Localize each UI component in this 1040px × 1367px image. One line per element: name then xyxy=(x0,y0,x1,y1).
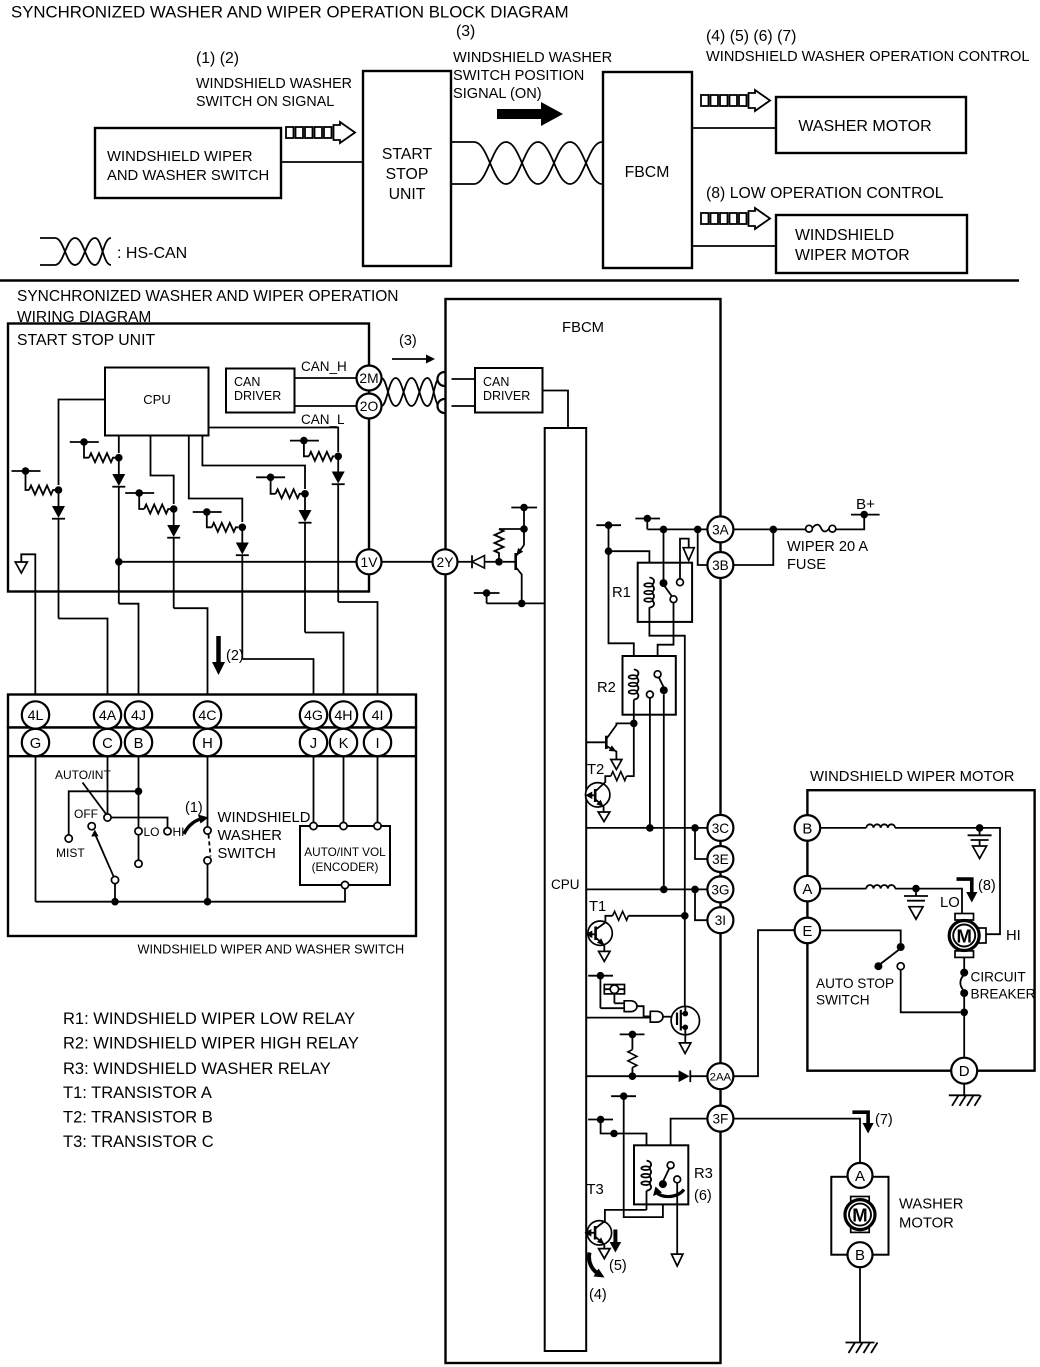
svg-text:AUTO/INT: AUTO/INT xyxy=(55,768,111,782)
svg-text:D: D xyxy=(959,1063,970,1080)
washer switch arm (dashed) xyxy=(209,835,211,857)
wiper switch arm xyxy=(91,830,119,906)
stub 2Y supply xyxy=(511,504,537,545)
svg-text:1V: 1V xyxy=(361,555,379,570)
wire H to washer contact xyxy=(207,756,209,827)
wire R2 pivot to 3G xyxy=(663,694,665,889)
pin 4A xyxy=(94,701,121,728)
cell 5: stub xyxy=(256,474,309,499)
svg-text:LO: LO xyxy=(144,825,160,839)
svg-text:WASHER: WASHER xyxy=(899,1197,963,1213)
svg-text:STOP: STOP xyxy=(386,166,429,183)
connector 1V xyxy=(357,549,382,574)
svg-text:WINDSHIELD WIPER: WINDSHIELD WIPER xyxy=(107,149,253,165)
cell 6: stub xyxy=(290,437,342,461)
svg-text:DRIVER: DRIVER xyxy=(483,389,530,403)
wire 3F to washer motor xyxy=(733,1119,860,1163)
curved arrow (4) xyxy=(589,1253,604,1278)
curved arrow (1) xyxy=(184,819,203,835)
cell 3: stub xyxy=(125,489,177,513)
svg-text:4A: 4A xyxy=(99,708,117,724)
wire CPU to cell4 xyxy=(189,436,243,523)
svg-text:WIPER 20 A: WIPER 20 A xyxy=(787,539,868,555)
transistor T1 (circled) xyxy=(585,921,612,961)
svg-text:3A: 3A xyxy=(712,522,730,537)
contact LO xyxy=(135,828,142,835)
svg-text:BREAKER: BREAKER xyxy=(971,987,1036,1002)
svg-text:(4) (5) (6) (7): (4) (5) (6) (7) xyxy=(706,28,796,45)
connector E (motor) xyxy=(795,918,821,944)
wire G to common rail xyxy=(35,756,37,902)
inductor B xyxy=(866,824,895,828)
box windshield wiper motor (wiring) xyxy=(807,790,1034,1070)
wire inductor to LO xyxy=(895,889,962,914)
wiper switch arm pivot segment xyxy=(138,835,140,860)
svg-text:4G: 4G xyxy=(304,708,323,724)
svg-text:WINDSHIELD WIPER MOTOR: WINDSHIELD WIPER MOTOR xyxy=(810,769,1014,785)
svg-text:WASHER MOTOR: WASHER MOTOR xyxy=(798,118,931,135)
pointer line auto/int xyxy=(83,783,107,815)
wire cell1 to pin 4A xyxy=(59,619,108,702)
box start stop unit xyxy=(363,71,451,266)
wire can driver to cpu xyxy=(543,391,569,429)
svg-text:(8): (8) xyxy=(978,878,996,894)
pin 4H xyxy=(330,701,357,728)
wire R2 coil feed (long) xyxy=(609,551,634,669)
stub rail 3A xyxy=(635,515,660,530)
svg-text:E: E xyxy=(802,923,812,940)
pin H xyxy=(194,729,221,756)
svg-text:B+: B+ xyxy=(856,496,875,513)
box windshield wiper and washer switch xyxy=(95,128,281,198)
pin 4L xyxy=(22,701,49,728)
pin K xyxy=(330,729,357,756)
stub rail R1 left xyxy=(596,521,621,555)
svg-text:R1: WINDSHIELD WIPER LOW RELAY: R1: WINDSHIELD WIPER LOW RELAY xyxy=(63,1010,355,1028)
connector 3I xyxy=(707,907,733,933)
svg-text:MOTOR: MOTOR xyxy=(899,1216,954,1232)
svg-text:R2: WINDSHIELD WIPER HIGH RELA: R2: WINDSHIELD WIPER HIGH RELAY xyxy=(63,1035,359,1053)
svg-text:4I: 4I xyxy=(372,708,384,724)
wire 2AA to E xyxy=(733,930,794,1076)
wire R1 contact to R2 xyxy=(658,603,674,671)
motor wiper M xyxy=(949,914,986,958)
wire fbcm to washer motor xyxy=(692,127,776,129)
svg-text:(3): (3) xyxy=(456,23,475,40)
separator line xyxy=(0,279,1019,282)
svg-text:WINDSHIELD WASHER OPERATION C: WINDSHIELD WASHER OPERATION CONTROL xyxy=(706,49,1030,65)
connector 3G xyxy=(707,876,733,902)
svg-text:SIGNAL (ON): SIGNAL (ON) xyxy=(453,86,542,102)
svg-text:4C: 4C xyxy=(198,708,216,724)
svg-text:H: H xyxy=(202,736,213,752)
svg-text:SYNCHRONIZED WASHER AND WIPER: SYNCHRONIZED WASHER AND WIPER OPERATION … xyxy=(11,3,569,22)
relay R1 xyxy=(638,529,692,622)
bent arrow (7) xyxy=(852,1112,873,1133)
svg-text:G: G xyxy=(30,736,42,752)
HS-CAN legend symbol xyxy=(40,238,111,265)
wire R2 NO contact to 3C xyxy=(649,698,651,828)
pin B xyxy=(125,729,152,756)
ground D xyxy=(949,1084,981,1106)
box windshield wiper motor (block) xyxy=(776,215,967,273)
cell 3: diode xyxy=(167,509,180,608)
diode at 2Y (pointing left) xyxy=(458,555,503,568)
inductor A xyxy=(866,885,895,889)
svg-text:M: M xyxy=(852,1205,867,1226)
stub R3 pivot feed xyxy=(611,1092,663,1217)
connector 3B xyxy=(707,552,733,578)
resistor T1 collector xyxy=(605,911,688,921)
connector node fbcm can-h xyxy=(438,372,452,386)
contact HI xyxy=(164,828,171,835)
wire B to inductor xyxy=(820,827,866,829)
washer switch upper contact xyxy=(204,827,211,834)
ground washer xyxy=(846,1343,878,1354)
washer switch lower contact xyxy=(204,857,211,864)
svg-text:SWITCH ON SIGNAL: SWITCH ON SIGNAL xyxy=(196,94,334,110)
svg-text:LO: LO xyxy=(940,895,960,911)
cell 4: stub xyxy=(193,508,246,532)
svg-text:(3): (3) xyxy=(399,333,417,349)
wire cell6 to pin 4I xyxy=(338,602,377,702)
svg-text:FBCM: FBCM xyxy=(625,164,670,181)
wire cell5 to pin 4H xyxy=(305,633,344,702)
svg-text:AND WASHER SWITCH: AND WASHER SWITCH xyxy=(107,168,269,184)
svg-text:START: START xyxy=(382,146,433,163)
box FBCM (wiring) xyxy=(446,299,721,1363)
svg-text:A: A xyxy=(855,1168,865,1185)
washer motor box xyxy=(831,1177,888,1255)
svg-text:R3: WINDSHIELD WASHER RELAY: R3: WINDSHIELD WASHER RELAY xyxy=(63,1060,331,1078)
pin 4C xyxy=(194,701,221,728)
svg-text:3I: 3I xyxy=(715,913,726,928)
svg-text:B: B xyxy=(855,1247,865,1264)
svg-text:2Y: 2Y xyxy=(437,555,454,570)
svg-text:3E: 3E xyxy=(712,852,729,867)
wire R3 NC contact to arrow xyxy=(676,1183,678,1254)
svg-text:AUTO/INT VOL: AUTO/INT VOL xyxy=(304,845,386,859)
svg-text:4H: 4H xyxy=(334,708,352,724)
gate A xyxy=(600,1001,650,1017)
connector B (washer) xyxy=(848,1242,873,1267)
pin I xyxy=(364,729,391,756)
connector 3A xyxy=(707,516,733,542)
connector 3E xyxy=(707,846,733,872)
svg-text:T1: TRANSISTOR A: T1: TRANSISTOR A xyxy=(63,1084,212,1102)
box washer motor (block) xyxy=(776,97,966,153)
B+ terminal xyxy=(851,511,880,519)
motor washer M xyxy=(845,1197,875,1233)
cell 2: stub xyxy=(70,438,123,462)
svg-text:UNIT: UNIT xyxy=(389,186,426,203)
svg-text:2M: 2M xyxy=(359,371,378,386)
svg-text:WINDSHIELD WIPER AND WASHER SW: WINDSHIELD WIPER AND WASHER SWITCH xyxy=(138,943,405,957)
svg-text:T2: T2 xyxy=(587,762,604,778)
svg-text:CAN_H: CAN_H xyxy=(301,359,347,374)
stub T1 logic xyxy=(588,972,613,1008)
switch box xyxy=(8,728,416,937)
wire 3B to junction xyxy=(733,529,773,565)
wire 3C from CPU xyxy=(586,827,707,829)
CPU tall box xyxy=(545,428,587,1351)
wire A to inductor xyxy=(820,888,866,890)
contact OFF xyxy=(88,823,95,830)
contact MIST xyxy=(65,835,72,842)
arrow (5) xyxy=(610,1230,622,1253)
svg-text:WINDSHIELD WASHER: WINDSHIELD WASHER xyxy=(453,50,612,66)
svg-text:CAN: CAN xyxy=(234,375,260,389)
wire I to encoder xyxy=(377,756,379,822)
cell 1: stub xyxy=(12,467,63,494)
wire K to encoder xyxy=(343,756,345,822)
svg-text:3F: 3F xyxy=(712,1112,728,1127)
contact auto/int xyxy=(104,814,111,821)
box start stop unit (wiring) xyxy=(8,324,369,592)
wire auto/int to HI drop xyxy=(111,818,167,828)
wire R2 coil to T2 node xyxy=(633,700,635,724)
pin 4I xyxy=(364,701,391,728)
connector 2O xyxy=(357,394,382,419)
capacitor-ground A xyxy=(904,889,928,920)
twisted pair start-fbcm xyxy=(451,142,603,184)
svg-text:CPU: CPU xyxy=(551,877,580,892)
connector 2M xyxy=(357,366,382,391)
hatched arrow 1 xyxy=(286,122,355,143)
svg-text:: HS-CAN: : HS-CAN xyxy=(117,245,187,262)
wire 2Y collector to CPU xyxy=(487,602,545,604)
wire CAN_L xyxy=(295,405,358,407)
svg-text:T2: TRANSISTOR B: T2: TRANSISTOR B xyxy=(63,1109,213,1127)
black arrow (3) signal xyxy=(497,102,563,126)
svg-text:K: K xyxy=(339,736,349,752)
wire CPU to cell5 xyxy=(202,436,305,490)
arrow (2) xyxy=(212,636,225,675)
wire C to auto/int contact xyxy=(107,756,109,813)
mosfet Q (circled) xyxy=(671,1006,699,1053)
wire inductor to HI corner xyxy=(895,828,1000,934)
svg-text:4J: 4J xyxy=(131,708,146,724)
svg-text:C: C xyxy=(102,736,113,752)
gate B xyxy=(586,1011,677,1022)
svg-text:(6): (6) xyxy=(694,1188,712,1204)
connector 3F xyxy=(707,1106,733,1132)
pin G xyxy=(22,729,49,756)
hatched arrow 3 xyxy=(701,208,770,229)
wire 1V to 2Y xyxy=(382,561,434,563)
wire 2AA from CPU xyxy=(586,1075,678,1077)
svg-text:T3: T3 xyxy=(587,1182,604,1198)
fuse WIPER 20A xyxy=(806,515,865,533)
encoder pin I xyxy=(374,822,381,829)
transistor T2 (circled) xyxy=(585,723,634,821)
svg-text:WIPER MOTOR: WIPER MOTOR xyxy=(795,247,910,264)
wire R1 coil to mosfet rail xyxy=(649,607,684,1006)
sensor symbol xyxy=(604,985,624,1004)
svg-text:T1: T1 xyxy=(589,899,606,915)
wire CAN_H xyxy=(295,377,358,379)
relay R2 xyxy=(623,656,676,715)
auto stop switch xyxy=(874,943,960,1012)
svg-text:SWITCH POSITION: SWITCH POSITION xyxy=(453,68,584,84)
ground (start unit open triangle) xyxy=(15,554,35,701)
svg-text:3C: 3C xyxy=(712,821,730,836)
svg-text:2O: 2O xyxy=(360,399,379,414)
pin 4G xyxy=(300,701,327,728)
svg-text:(7): (7) xyxy=(875,1112,893,1128)
svg-text:SWITCH: SWITCH xyxy=(218,846,276,862)
transistor T3 (circled) xyxy=(584,1210,646,1259)
wire CPU to cell3 xyxy=(151,436,174,505)
wire B down with junction xyxy=(138,756,140,827)
svg-text:SYNCHRONIZED WASHER AND WIPER: SYNCHRONIZED WASHER AND WIPER OPERATION xyxy=(17,288,399,305)
encoder pin K xyxy=(340,822,347,829)
wire CPU left to cell1 xyxy=(59,400,106,486)
transistor Q-2Y (pnp) xyxy=(503,545,526,607)
wire washer B to ground xyxy=(859,1267,861,1342)
svg-text:CAN: CAN xyxy=(483,375,509,389)
wire washer to rail xyxy=(207,864,209,902)
wire can-l node to driver xyxy=(452,405,476,407)
svg-text:HI: HI xyxy=(1006,928,1021,944)
svg-text:J: J xyxy=(310,736,317,752)
pin C xyxy=(94,729,121,756)
svg-text:DRIVER: DRIVER xyxy=(234,389,281,403)
svg-text:2AA: 2AA xyxy=(710,1072,732,1084)
svg-text:(1) (2): (1) (2) xyxy=(196,50,239,67)
svg-text:B: B xyxy=(802,820,812,837)
relay R3 xyxy=(634,1145,688,1210)
svg-text:B: B xyxy=(134,736,144,752)
encoder pin J xyxy=(310,822,317,829)
hatched arrow 2 xyxy=(701,90,770,111)
connector 3C xyxy=(707,815,733,841)
svg-text:WINDSHIELD: WINDSHIELD xyxy=(795,227,894,244)
svg-text:M: M xyxy=(956,926,971,947)
svg-text:4L: 4L xyxy=(28,708,44,724)
wire 1V bus xyxy=(119,561,357,563)
encoder box xyxy=(300,826,390,885)
wire 3F to R3 contact xyxy=(671,1119,708,1162)
curved arrow (6) xyxy=(653,1187,684,1197)
svg-text:3B: 3B xyxy=(712,558,729,573)
box FBCM xyxy=(603,72,692,268)
wire cell3 to pin 4C xyxy=(174,608,208,701)
cell 2: diode xyxy=(112,458,125,604)
wire 3I riser left xyxy=(695,889,708,920)
svg-text:WINDSHIELD WASHER: WINDSHIELD WASHER xyxy=(196,76,352,92)
svg-text:AUTO STOP: AUTO STOP xyxy=(816,976,894,991)
wire B junction to MIST xyxy=(69,791,139,834)
svg-text:I: I xyxy=(375,736,379,752)
wire E to auto stop xyxy=(820,930,900,943)
svg-text:(4): (4) xyxy=(589,1287,607,1303)
svg-text:WASHER: WASHER xyxy=(218,828,282,844)
R1 NO contact pennant xyxy=(680,539,694,579)
connector A (motor) xyxy=(795,876,821,902)
cell 4: diode xyxy=(236,527,249,659)
svg-text:MIST: MIST xyxy=(56,846,85,860)
connector D (motor) xyxy=(951,1058,977,1084)
twisted pair 2M/2O to FBCM xyxy=(382,378,439,406)
capacitor-ground B xyxy=(968,828,992,859)
svg-text:(2): (2) xyxy=(226,648,244,664)
svg-text:CPU: CPU xyxy=(143,392,170,407)
connector row divider xyxy=(8,755,416,757)
pin 4J xyxy=(125,701,152,728)
wire can-h node to driver xyxy=(452,378,476,380)
svg-text:T3: TRANSISTOR C: T3: TRANSISTOR C xyxy=(63,1133,214,1151)
transistor T2a (driver) xyxy=(586,723,634,769)
circuit breaker xyxy=(960,957,968,1057)
wire CPU right to cell6 xyxy=(209,428,339,453)
wire CPU to cell2 xyxy=(118,436,120,454)
svg-text:(5): (5) xyxy=(609,1258,627,1274)
wire J to encoder xyxy=(313,756,315,822)
svg-text:FBCM: FBCM xyxy=(562,320,604,336)
CAN driver (start unit) xyxy=(226,369,295,413)
svg-text:A: A xyxy=(802,881,812,898)
connector 2Y xyxy=(433,549,458,574)
resistor 2Y base pull-up xyxy=(495,529,525,562)
wire rail to 3A xyxy=(647,528,707,530)
connector A (washer) xyxy=(848,1163,873,1188)
arrow (3) xyxy=(392,355,435,364)
svg-text:FUSE: FUSE xyxy=(787,557,826,573)
connector 2AA xyxy=(707,1063,733,1089)
cell 5: diode xyxy=(299,494,312,633)
cell 1: diode xyxy=(52,490,65,619)
svg-text:R2: R2 xyxy=(597,680,616,696)
svg-text:3G: 3G xyxy=(711,882,729,897)
wire cell2 to pin 4J xyxy=(119,604,139,702)
svg-text:HI: HI xyxy=(173,825,185,839)
svg-text:OFF: OFF xyxy=(74,807,98,821)
wire fbcm to wiper motor xyxy=(692,245,776,247)
svg-text:R3: R3 xyxy=(694,1166,713,1182)
wire 3B riser xyxy=(698,529,708,565)
svg-text:SWITCH: SWITCH xyxy=(816,993,870,1008)
svg-text:START STOP UNIT: START STOP UNIT xyxy=(17,332,155,349)
CAN driver (FBCM) xyxy=(475,368,543,413)
wire 3E riser left xyxy=(695,828,708,859)
svg-text:CIRCUIT: CIRCUIT xyxy=(971,970,1026,985)
pin J xyxy=(300,729,327,756)
common rail wire xyxy=(36,889,346,902)
stub R3 coil feed xyxy=(588,1116,646,1161)
wire cell4 to pin 4G xyxy=(242,659,313,702)
CPU box xyxy=(105,368,209,436)
wire R1 coil feed xyxy=(609,551,650,577)
svg-text:CAN_L: CAN_L xyxy=(301,412,345,427)
diode 2AA xyxy=(679,1070,708,1082)
connector node fbcm can-l xyxy=(438,399,452,413)
connector B (motor) xyxy=(795,815,821,841)
encoder bottom pin xyxy=(341,881,348,888)
connector row box upper xyxy=(8,695,416,728)
stub 2Y collector xyxy=(474,589,500,603)
svg-text:(8) LOW OPERATION CONTROL: (8) LOW OPERATION CONTROL xyxy=(706,185,944,202)
svg-text:WINDSHIELD: WINDSHIELD xyxy=(218,810,311,826)
wire 3A to fuse xyxy=(733,528,809,530)
wire 3G from CPU xyxy=(586,888,707,890)
bent arrow (8) xyxy=(957,879,978,902)
cell 6: diode xyxy=(332,456,345,602)
svg-text:(ENCODER): (ENCODER) xyxy=(312,860,379,874)
stub 2AA pull xyxy=(620,1031,645,1080)
wire switch to start stop unit xyxy=(281,161,363,163)
svg-text:(1): (1) xyxy=(185,800,203,816)
